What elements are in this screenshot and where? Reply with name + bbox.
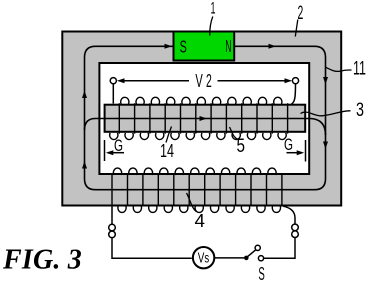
svg-text:FIG. 3: FIG. 3 <box>2 245 82 276</box>
source Vs circle <box>193 247 214 268</box>
V2 dimension line left <box>119 80 190 82</box>
terminal circle V2 right <box>292 78 298 84</box>
flux arrow top-left <box>165 44 173 49</box>
magnet 1 <box>174 32 235 61</box>
svg-text:14: 14 <box>160 141 174 161</box>
gap G right arrow <box>287 152 303 154</box>
svg-text:S: S <box>180 37 187 57</box>
gap G right extension line <box>305 140 307 162</box>
coil 4 bottom loops <box>118 206 281 213</box>
flux arrow top-right <box>269 44 277 49</box>
wire Vs to switch <box>215 257 244 259</box>
svg-text:5: 5 <box>237 135 246 157</box>
svg-text:s: s <box>204 251 209 266</box>
svg-text:G: G <box>284 135 293 154</box>
flux arrow left lower (up) <box>82 161 87 169</box>
wire right down to switch <box>264 238 295 259</box>
V2 dimension line right <box>218 80 291 82</box>
wire V2 left lead <box>112 84 114 104</box>
coil 5 bottom loops <box>110 133 287 140</box>
svg-text:G: G <box>114 136 123 155</box>
leader 1 <box>210 17 213 36</box>
coil 5 winding verticals on bar 3 <box>119 103 287 133</box>
gap G left extension line <box>104 140 106 161</box>
svg-text:2: 2 <box>206 71 212 91</box>
core frame 2 (outer yoke) <box>62 32 341 206</box>
wire left down to bottom rail <box>112 238 192 259</box>
svg-text:11: 11 <box>353 57 366 79</box>
switch S blade tip circle <box>255 245 260 250</box>
leader 14 <box>166 127 172 143</box>
leader 2 <box>295 20 298 37</box>
V2 arrowhead left <box>117 78 125 83</box>
svg-text:S: S <box>258 263 264 283</box>
V2 arrowhead right <box>285 78 293 83</box>
terminal circle V2 left <box>110 78 116 84</box>
wire V2 right lead <box>292 84 296 104</box>
flux arrow right lower (down) <box>323 142 328 150</box>
leader 5 <box>230 127 239 140</box>
wire coil4 left lead down <box>111 206 113 224</box>
leader 11 <box>326 67 352 71</box>
svg-text:1: 1 <box>211 0 216 18</box>
coil 5 top loops <box>121 97 282 104</box>
wire coil4 right lead <box>283 206 295 224</box>
flux arrow left upper (up) <box>82 91 87 99</box>
bar core 3 (center limb) <box>105 105 306 132</box>
terminal 8 left (two circles) <box>109 224 116 231</box>
svg-text:2: 2 <box>298 3 304 24</box>
svg-text:V: V <box>195 71 202 91</box>
flux loop wire <box>85 46 326 189</box>
terminal 8 right (two circles) <box>292 224 299 231</box>
switch S blade <box>248 250 256 257</box>
svg-text:N: N <box>225 36 231 56</box>
coil 4 top loops <box>113 168 276 175</box>
svg-text:4: 4 <box>195 211 206 231</box>
gap G left arrow <box>108 152 124 154</box>
core window (inner opening) <box>99 63 309 174</box>
switch S fixed contact circle <box>258 256 263 261</box>
coil 4 winding verticals on bottom limb <box>112 174 282 206</box>
flux branch through bar (node line) <box>85 119 326 136</box>
switch S pivot dot <box>244 256 249 261</box>
flux arrow right upper (down) <box>323 77 328 85</box>
svg-text:3: 3 <box>356 99 364 121</box>
leader 4 <box>187 193 197 212</box>
flux arrow in bar (right) <box>200 116 208 121</box>
leader 3 <box>301 111 351 116</box>
